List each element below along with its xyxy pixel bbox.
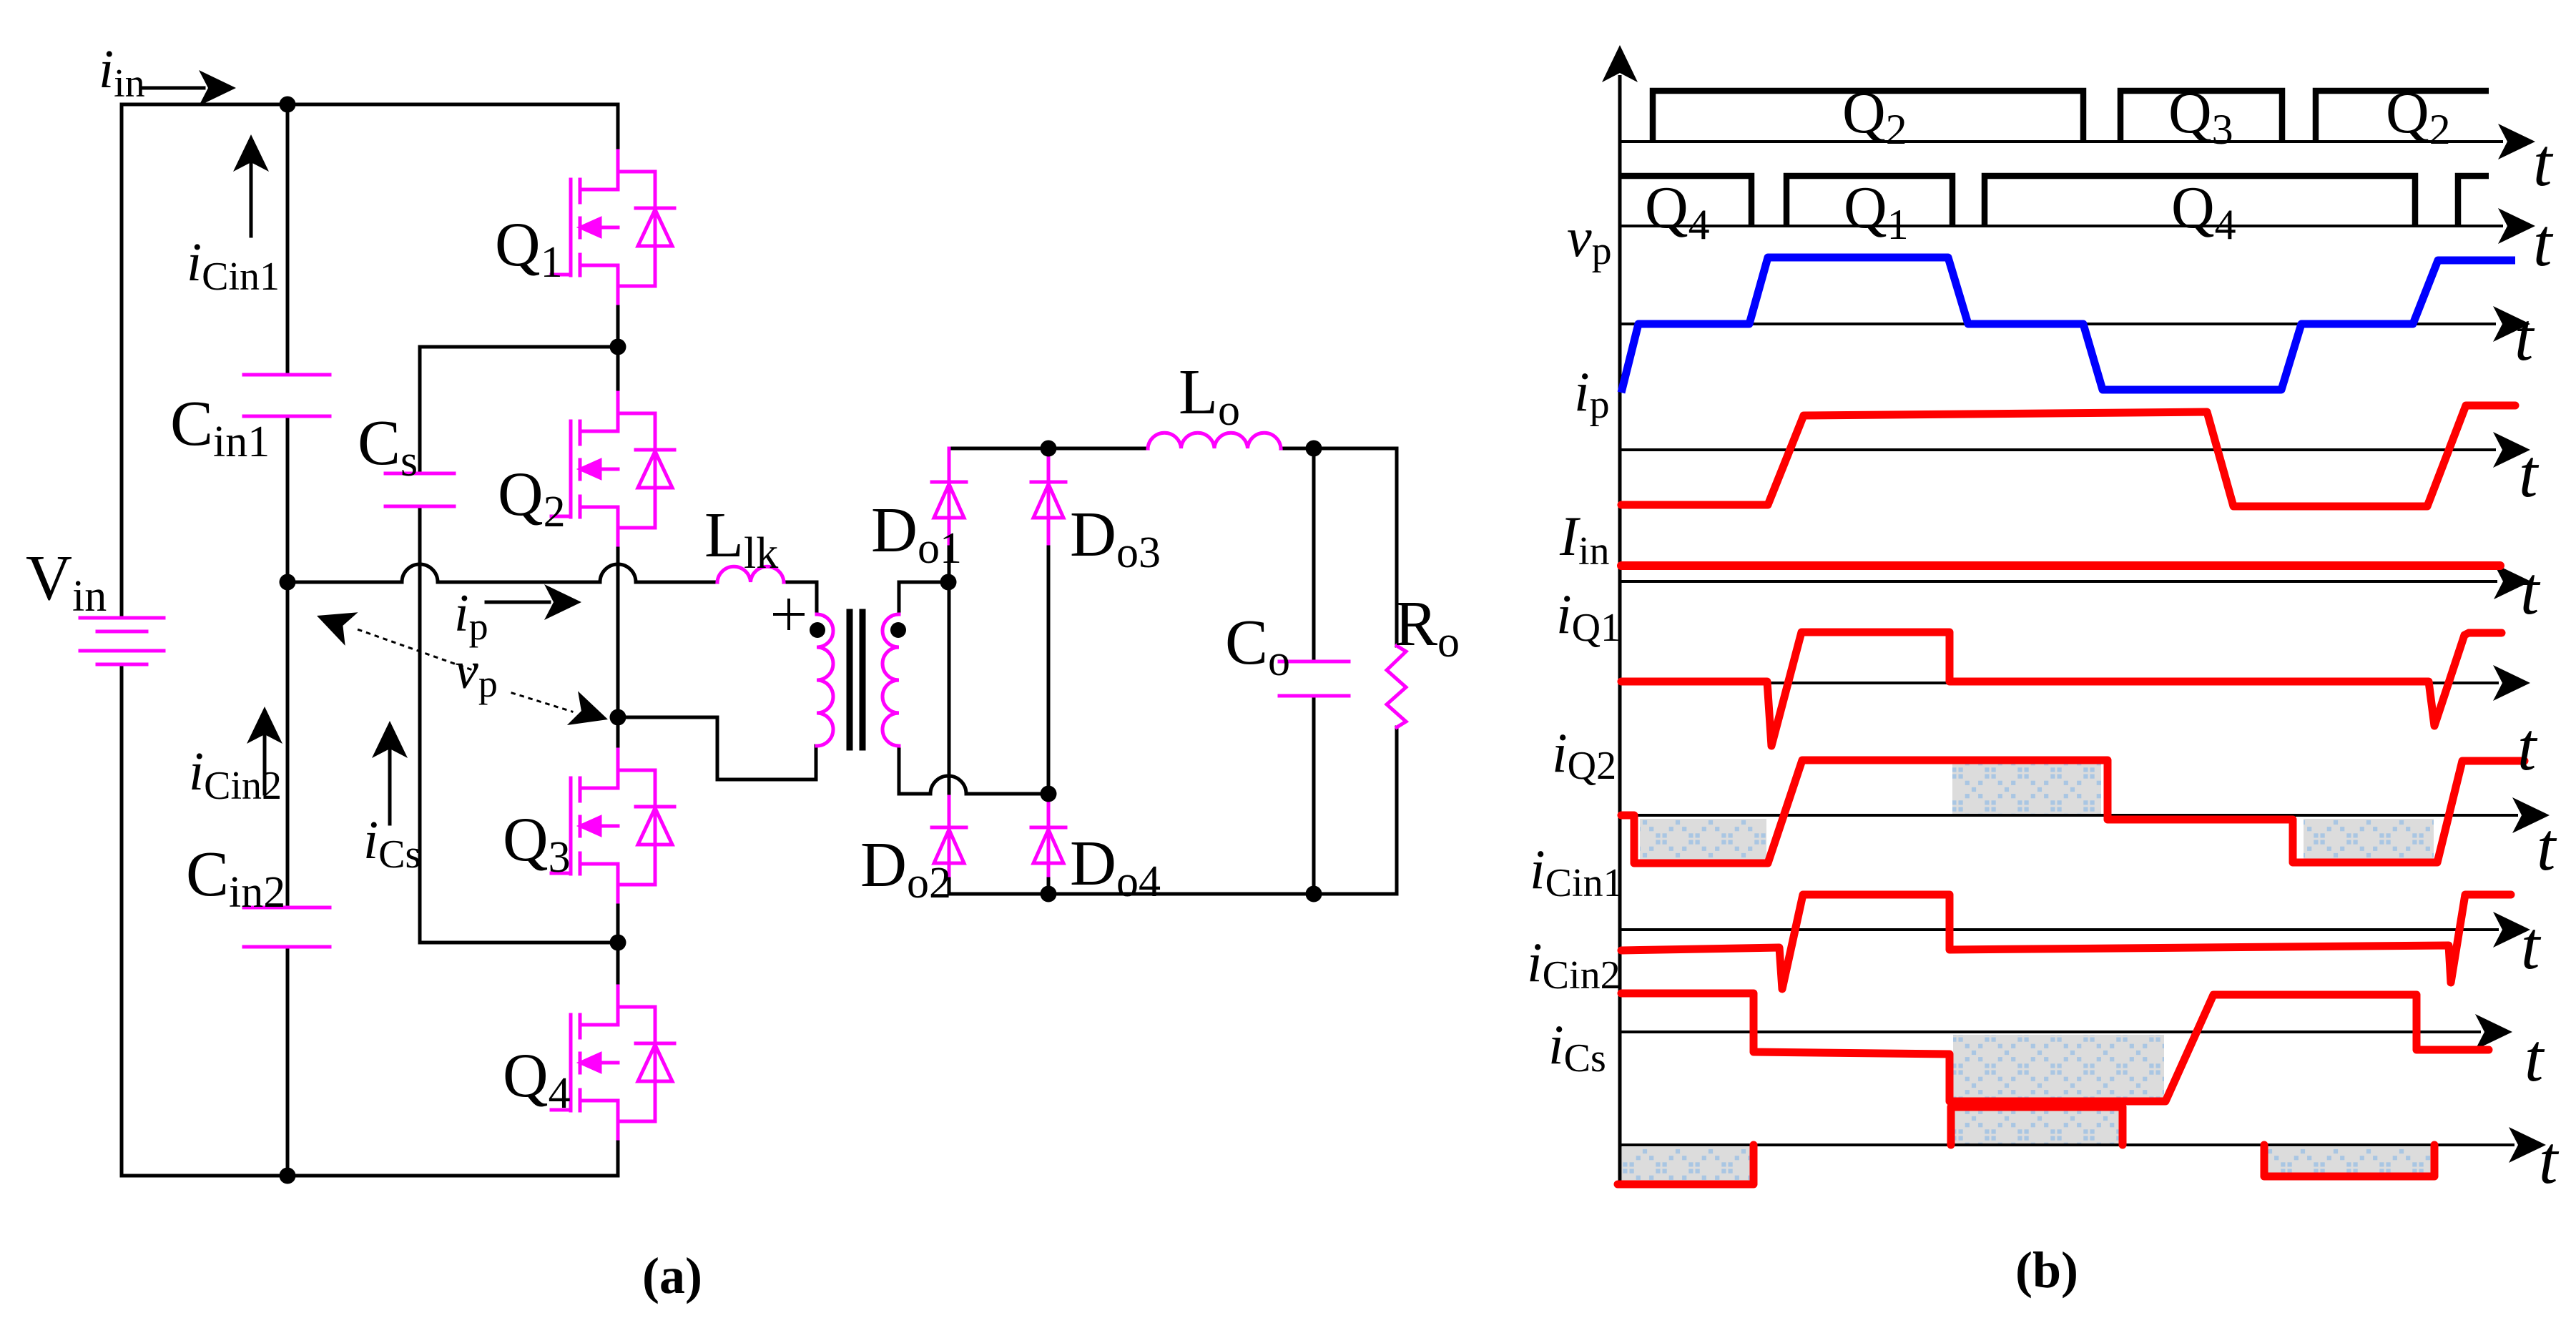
wire Ro branch upper — [1395, 448, 1399, 646]
axis vertical — [1618, 75, 1622, 1187]
axis arrowhead row Q2 — [2498, 124, 2535, 159]
wire Do1 branch middle — [948, 542, 951, 800]
axis iQ1 — [1620, 682, 2499, 684]
capacitor Co — [1279, 661, 1349, 696]
arrow iCs — [388, 737, 392, 824]
axis row Q4Q1 — [1620, 225, 2503, 227]
arrow iCin2 — [263, 722, 267, 794]
node transformer primary polarity dot — [810, 622, 825, 638]
wire ip primary-top with crossover humps — [287, 564, 717, 582]
svg-text:t: t — [2537, 809, 2557, 885]
wire Cs bottom — [420, 941, 618, 945]
axis arrowhead vp — [2493, 306, 2530, 342]
transistor Q3 — [551, 749, 674, 902]
waveform ip — [1621, 405, 2515, 506]
hatch region iCs left — [1622, 1147, 1752, 1181]
svg-text:t: t — [2533, 124, 2554, 200]
node bottom rail Co — [1306, 886, 1322, 902]
gate pulse Q2 second — [2316, 91, 2489, 142]
wire Cin branch upper — [286, 104, 290, 375]
waveform iCs right lobe — [2264, 1145, 2434, 1176]
node Q3-Q4 junction — [610, 935, 626, 951]
wire bottom rail — [122, 1174, 618, 1178]
gate pulse Q3 — [2120, 91, 2282, 142]
svg-text:(a): (a) — [642, 1247, 702, 1304]
wire Llk to transformer — [784, 582, 817, 614]
svg-text:t: t — [2525, 1020, 2545, 1096]
svg-text:t: t — [2521, 907, 2542, 983]
arrowhead ip — [544, 584, 581, 620]
arrow vp dashed right — [512, 693, 572, 712]
svg-text:t: t — [2514, 299, 2535, 375]
wire Co branch upper — [1312, 448, 1316, 661]
wire leg top — [616, 104, 620, 152]
wire Cs branch lower — [418, 506, 422, 943]
svg-text:(b): (b) — [2015, 1241, 2078, 1299]
wire Cin branch middle — [286, 416, 290, 907]
svg-text:t: t — [2517, 709, 2538, 784]
inductor Lo — [1148, 433, 1281, 448]
axis row Q2 — [1620, 140, 2503, 143]
axis iQ2 — [1620, 814, 2518, 817]
wire top rail — [122, 103, 618, 107]
transformer secondary winding — [883, 614, 899, 746]
arrowhead iCs — [372, 721, 408, 758]
waveform Iin — [1621, 561, 2500, 570]
arrowhead iin — [199, 70, 236, 106]
wire Do2 branch bottom — [948, 874, 951, 894]
diode Do1 — [932, 482, 966, 518]
node Cin midpoint — [280, 574, 296, 591]
node top input junction — [280, 97, 296, 113]
axis iCin2 — [1620, 1031, 2481, 1033]
diode Do3 magenta lead — [1047, 448, 1051, 543]
gate pulse Q4 third partial — [2458, 176, 2489, 226]
node bottom rail Do4 — [1041, 886, 1057, 902]
axis iCin1 — [1620, 928, 2499, 931]
axis ip — [1620, 448, 2496, 451]
wire leg Q2 to vp node — [616, 544, 620, 750]
hatch region iCs right — [2266, 1147, 2433, 1175]
arrowhead vp left — [310, 599, 358, 646]
arrow iin — [141, 87, 204, 90]
wire leg Q4 to bottom — [616, 1138, 620, 1176]
waveform vp blue — [1621, 257, 2515, 393]
gate pulse Q1 — [1786, 176, 1952, 226]
wire Do4 branch bottom — [1047, 874, 1051, 894]
svg-text:t: t — [2533, 205, 2554, 280]
battery Vin — [80, 618, 164, 664]
arrowhead iCin1 — [233, 134, 269, 172]
axis iCs — [1620, 1143, 2514, 1146]
wire secondary top lead — [899, 582, 948, 614]
axis arrowhead iCin1 — [2493, 912, 2530, 948]
wire Cin branch lower — [286, 947, 290, 1176]
waveform iQ1 — [1621, 632, 2502, 746]
transistor Q4 — [551, 986, 674, 1138]
axis arrowhead vertical — [1602, 45, 1638, 82]
axis arrowhead iCin2 — [2475, 1014, 2512, 1050]
diode Do2 — [932, 827, 966, 863]
axis Iin — [1620, 580, 2497, 583]
axis arrowhead iCs — [2509, 1127, 2546, 1163]
waveform iCin2 — [1621, 993, 2489, 1101]
hatch boxes — [1622, 764, 2434, 1181]
wire leg Q1-Q2 — [616, 302, 620, 393]
hatch region iCs middle — [1953, 1109, 2121, 1143]
diode Do4 magenta lead — [1047, 794, 1051, 875]
axis arrowhead iQ1 — [2493, 665, 2530, 701]
node secondary bottom / Do3 anode — [1041, 786, 1057, 802]
capacitor Cin2 — [244, 907, 330, 947]
axis arrowhead iQ2 — [2512, 797, 2550, 833]
hatch region iQ2 left — [1640, 819, 1766, 862]
svg-text:t: t — [2520, 553, 2541, 629]
arrowhead iCin2 — [247, 707, 282, 744]
hatch region iQ2 middle — [1952, 764, 2101, 814]
axis arrowhead Iin — [2494, 564, 2531, 599]
arrow vp dashed left — [353, 628, 471, 669]
wire Ro branch lower — [1395, 727, 1399, 894]
node transformer secondary polarity dot — [890, 622, 906, 638]
waveform iCs middle lobe — [1951, 1107, 2123, 1145]
node secondary top / Do1 anode — [940, 574, 957, 591]
transistor Q1 — [551, 151, 674, 303]
node Lo-Co junction — [1306, 441, 1322, 457]
axis vp — [1620, 323, 2496, 325]
arrow iCin1 — [250, 150, 253, 236]
node vp (Q2-Q3 junction) — [610, 709, 626, 726]
waveform iCin1 — [1621, 895, 2511, 989]
svg-text:t: t — [2539, 1122, 2560, 1198]
diode Do1 magenta lead — [948, 448, 951, 543]
wire left rail upper — [120, 104, 124, 618]
diode Do2 magenta lead — [948, 797, 951, 875]
WAVEFORMS — [1527, 45, 2560, 1198]
wire vp node to primary bottom — [618, 717, 816, 779]
gate pulse Q2 first — [1653, 91, 2083, 142]
wire output top rail left of Lo — [949, 447, 1148, 451]
diode Do3 — [1031, 482, 1066, 518]
wire left rail lower — [120, 664, 124, 1176]
axis arrowhead row Q4Q1 — [2498, 208, 2535, 244]
transformer primary winding — [817, 614, 833, 746]
wire output bottom rail — [949, 892, 1397, 896]
resistor Ro — [1387, 646, 1406, 727]
wire Cs top — [420, 345, 618, 349]
wire Do3 branch middle — [1047, 542, 1051, 794]
gate pulse Q4 first — [1620, 176, 1751, 226]
arrow ip — [486, 601, 549, 604]
waveform iCs left lobe — [1618, 1145, 1754, 1184]
axes — [1620, 75, 2518, 1187]
transistor Q2 — [551, 393, 674, 545]
transformer core bars — [850, 612, 862, 747]
hatch region iCin2 — [1953, 1035, 2164, 1100]
arrowhead vp right — [567, 691, 614, 736]
capacitor Cs — [385, 473, 454, 506]
wire Cs branch upper — [418, 347, 422, 473]
node bottom input junction — [280, 1168, 296, 1184]
wire leg Q3-Q4 — [616, 901, 620, 987]
node Q1-Q2 junction — [610, 339, 626, 355]
wire Co branch lower — [1312, 696, 1316, 894]
diode Do4 — [1031, 827, 1066, 863]
svg-text:t: t — [2519, 436, 2540, 511]
inductor Llk — [717, 566, 784, 582]
wire secondary bottom lead with hump — [899, 746, 1048, 794]
gate pulse Q4 second — [1985, 176, 2415, 226]
node rectifier output top — [1041, 441, 1057, 457]
label + polarity mark — [775, 600, 803, 629]
hatch region iQ2 right — [2304, 819, 2434, 860]
gate pulse train row1 — [1620, 91, 2489, 226]
axis arrowhead ip — [2493, 432, 2530, 468]
wire output top rail right of Lo — [1281, 447, 1397, 451]
waveform iQ2 — [1621, 760, 2525, 863]
capacitor Cin1 — [244, 375, 330, 416]
